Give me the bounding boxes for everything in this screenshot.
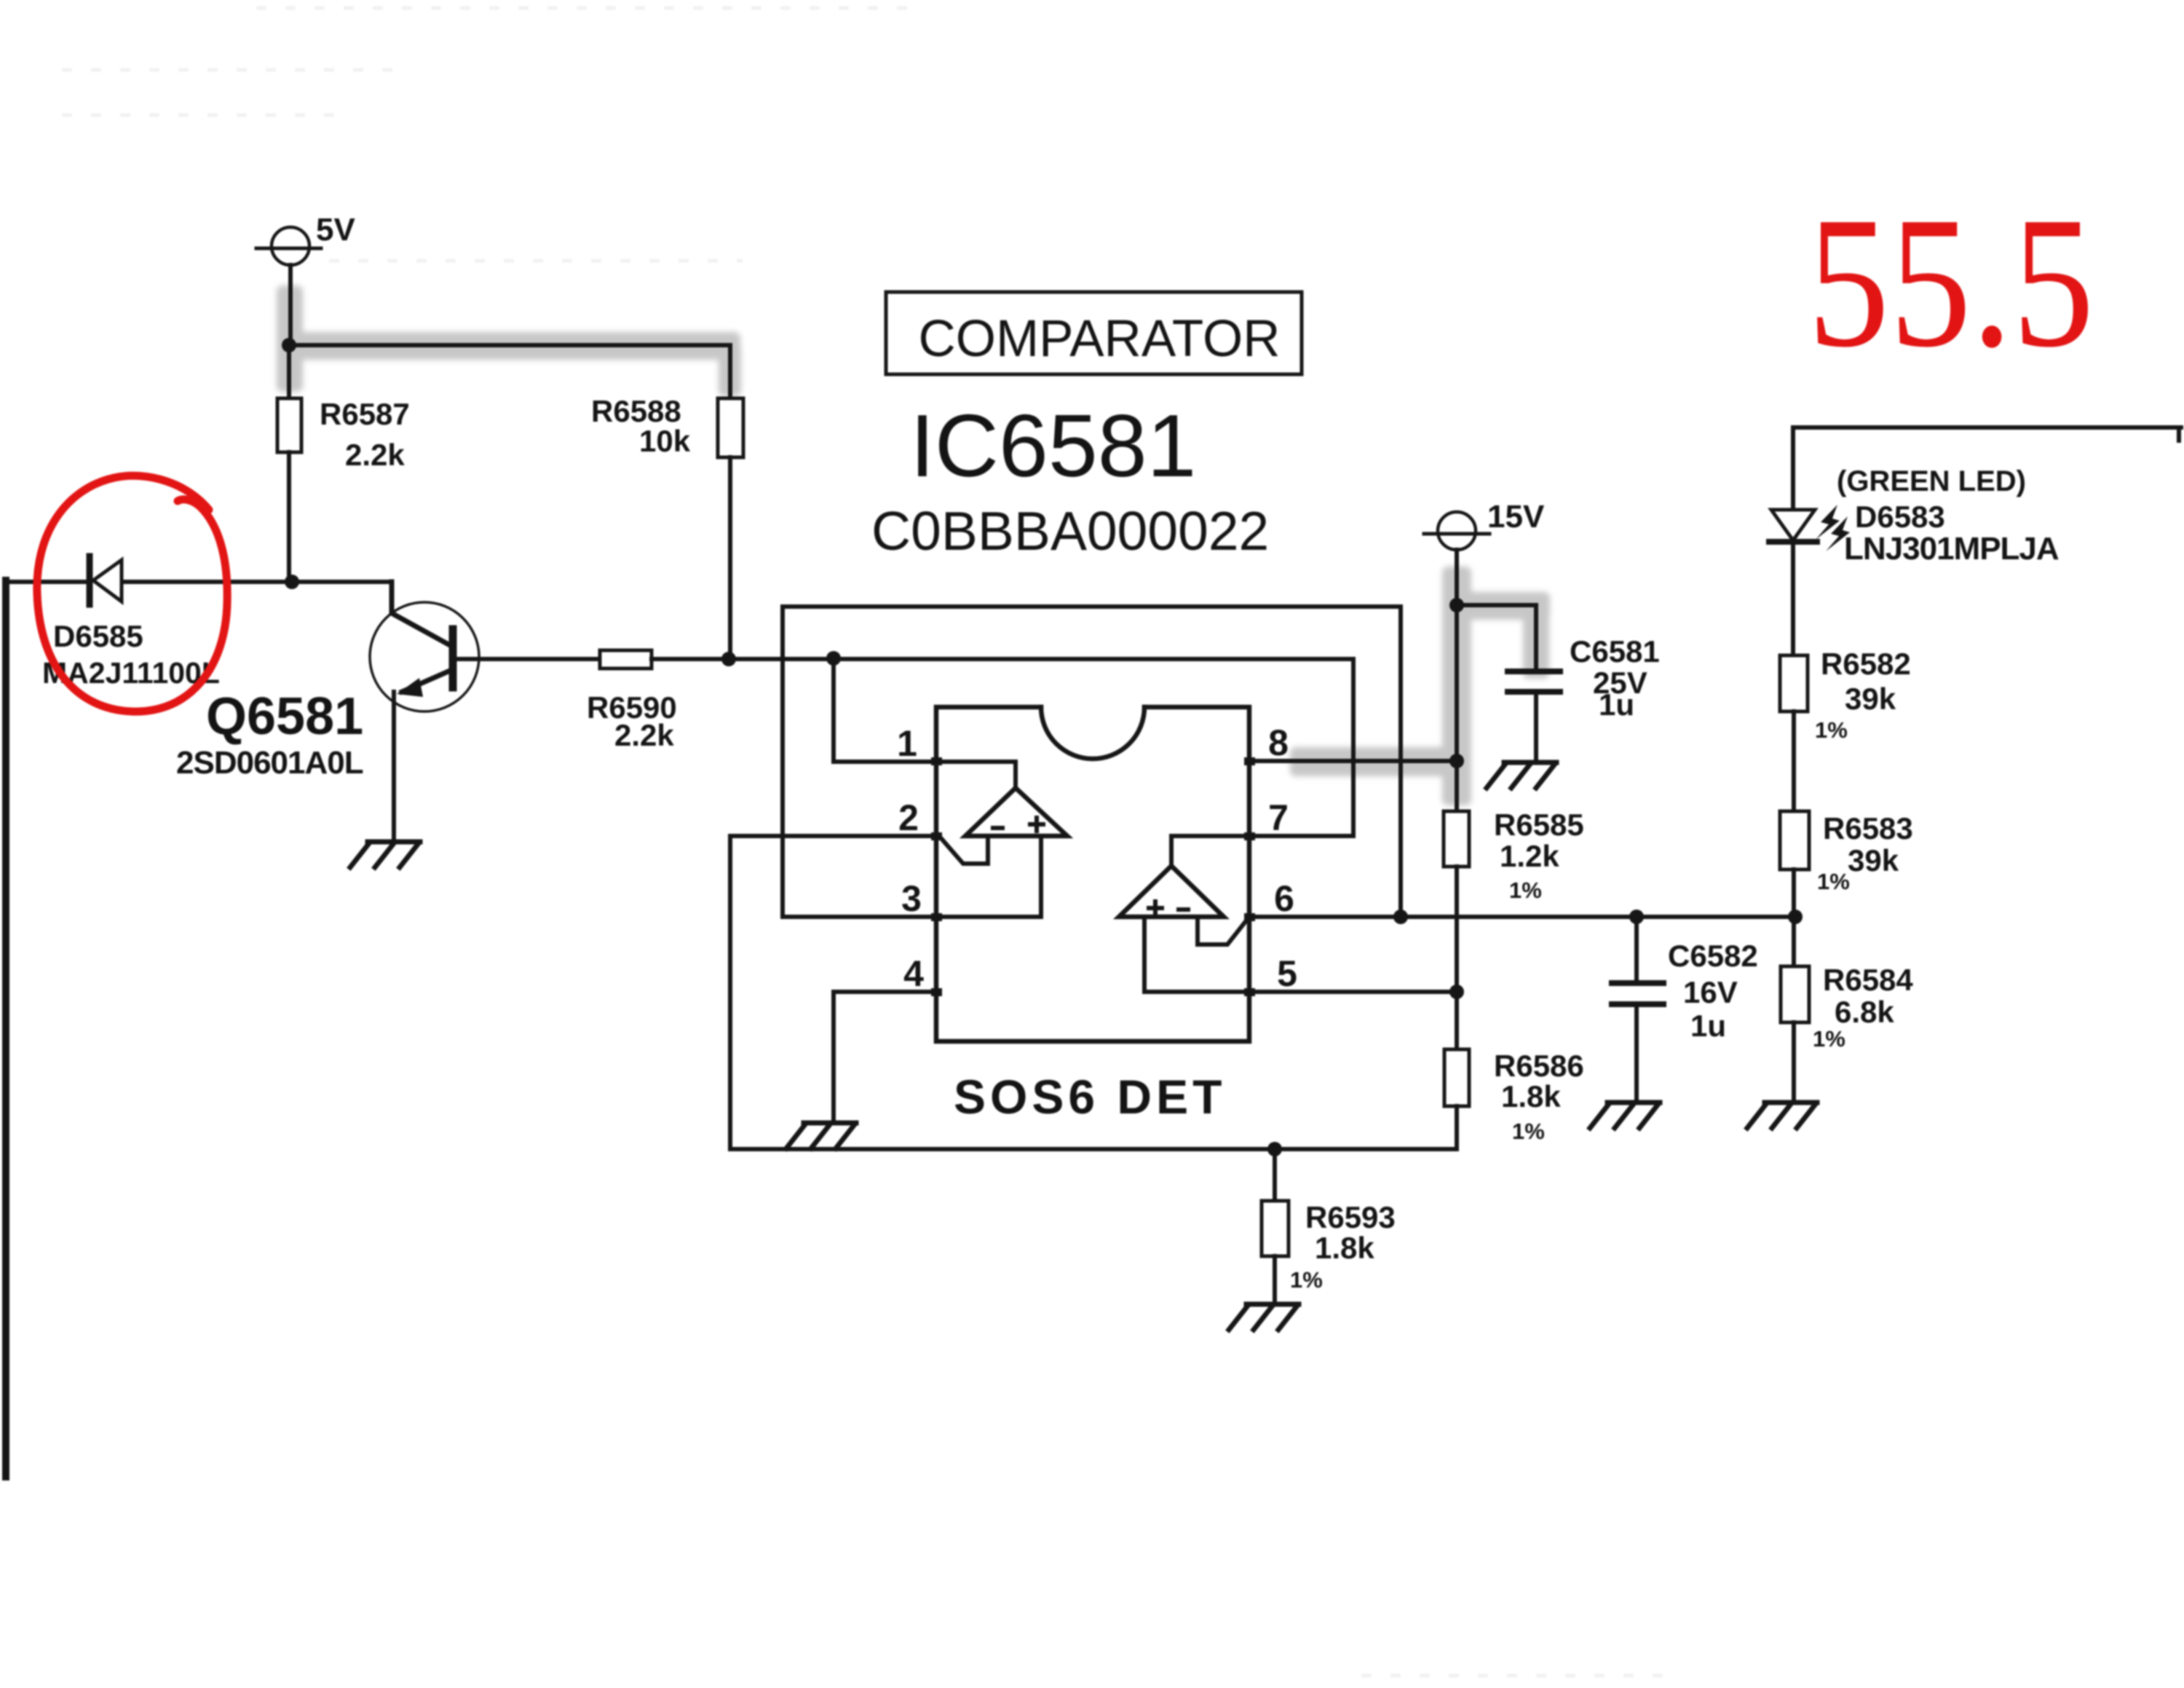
svg-text:5V: 5V [316, 212, 355, 248]
capacitor C6582 [1612, 917, 1663, 1102]
capacitor C6581 [1457, 605, 1560, 762]
wire: pin 5 net [1144, 917, 1457, 992]
svg-text:2.2k: 2.2k [345, 438, 405, 472]
svg-text:5: 5 [1277, 953, 1297, 994]
resistor R6587 [277, 345, 301, 582]
power symbol 5V [256, 227, 321, 347]
svg-text:D6583: D6583 [1855, 500, 1945, 534]
svg-text:R6584: R6584 [1823, 963, 1913, 997]
svg-text:1%: 1% [1290, 1267, 1323, 1293]
junction diode / R6587 / collector node [285, 575, 299, 589]
wire: pin 4 net [834, 992, 936, 1122]
wire: 5V rail to R6588 [289, 345, 730, 398]
IC6581 chip body [936, 707, 1249, 1041]
svg-text:R6583: R6583 [1823, 811, 1913, 845]
svg-text:1%: 1% [1815, 717, 1848, 743]
wire: pin 2 net [730, 836, 988, 864]
svg-text:C6582: C6582 [1668, 939, 1758, 973]
resistor R6584 [1781, 966, 1809, 1102]
svg-text:8: 8 [1268, 722, 1289, 763]
diode D6585 [90, 556, 122, 604]
junction C6582 top on pin6 net [1629, 910, 1644, 924]
svg-text:D6585: D6585 [53, 619, 143, 653]
svg-text:1%: 1% [1813, 1026, 1845, 1052]
wire: left edge vertical [2, 580, 9, 1477]
ground (C6581) [1487, 762, 1556, 788]
svg-text:R6593: R6593 [1305, 1200, 1396, 1234]
ground (C6582) [1590, 1103, 1660, 1128]
svg-text:R6586: R6586 [1494, 1049, 1584, 1083]
junction pin5 / R6585-R6586 column [1449, 985, 1464, 999]
wire: pin 3 net [783, 836, 1041, 917]
svg-text:3: 3 [901, 878, 922, 919]
resistor R6585 [1444, 811, 1469, 992]
svg-text:R6582: R6582 [1821, 647, 1911, 681]
ground (pin 4) [786, 1123, 856, 1148]
op-amp U1 (left comparator) [965, 788, 1067, 836]
svg-text:2SD0601A0L: 2SD0601A0L [176, 745, 363, 781]
svg-text:1%: 1% [1817, 869, 1850, 894]
IC outer routing box [783, 607, 1401, 917]
wire: pin 8 net [1249, 759, 1457, 763]
faint scanner noise [62, 8, 1667, 1676]
svg-text:1%: 1% [1509, 877, 1542, 903]
red 55.5 annotation [1808, 178, 2094, 387]
junction R6583/R6584 on pin6 net [1788, 910, 1803, 924]
svg-text:LNJ301MPLJA: LNJ301MPLJA [1844, 531, 2059, 567]
svg-text:6.8k: 6.8k [1835, 995, 1894, 1029]
ground (emitter Q6581) [350, 842, 420, 867]
svg-text:SOS6 DET: SOS6 DET [954, 1070, 1226, 1124]
ground (R6584) [1747, 1103, 1817, 1128]
resistor R6593 [1262, 1149, 1289, 1304]
svg-text:(GREEN LED): (GREEN LED) [1837, 465, 2026, 497]
svg-text:7: 7 [1268, 797, 1289, 838]
svg-text:1.2k: 1.2k [1500, 839, 1559, 873]
op-amp U2 (right comparator) [1119, 866, 1224, 917]
MAIN SCHEMATIC [4, 227, 2181, 1477]
wire: pin 6 net [1198, 917, 1795, 944]
svg-text:R6585: R6585 [1494, 808, 1584, 842]
wire: base of Q6581 to R6590 [456, 657, 600, 661]
svg-text:Q6581: Q6581 [206, 687, 363, 746]
svg-text:C6581: C6581 [1570, 634, 1660, 669]
svg-text:R6587: R6587 [320, 397, 410, 431]
svg-text:1.8k: 1.8k [1315, 1231, 1374, 1265]
resistor R6583 [1780, 811, 1809, 966]
svg-text:2.2k: 2.2k [614, 718, 674, 752]
svg-text:4: 4 [903, 953, 924, 994]
junction outer box right edge / pin6 net [1393, 910, 1408, 924]
svg-text:15V: 15V [1487, 499, 1545, 535]
svg-text:16V: 16V [1683, 975, 1738, 1009]
junction pin1 branch on base wire [826, 651, 841, 666]
ground (R6593) [1229, 1304, 1299, 1330]
wire: R6590 to pin7 riser [652, 659, 1353, 836]
pin stubs on chip body [931, 757, 1255, 996]
svg-text:1u: 1u [1690, 1009, 1726, 1043]
svg-text:R6588: R6588 [591, 394, 681, 428]
wire: top right rail [1793, 427, 2181, 510]
junction 5V rail / R6587 [282, 338, 296, 352]
svg-text:IC6581: IC6581 [910, 396, 1196, 495]
svg-text:39k: 39k [1848, 843, 1899, 877]
svg-text:55.5: 55.5 [1808, 178, 2094, 387]
resistor R6588 [718, 398, 743, 659]
wire: pin2 drop to bottom rail [730, 836, 1457, 1149]
wire: diode net horizontal [4, 580, 86, 584]
resistor R6586 [1444, 992, 1469, 1149]
LED D6583 [1769, 505, 1850, 655]
junction R6588 / base wire [721, 652, 736, 666]
resistor R6582 [1780, 655, 1808, 811]
svg-text:10k: 10k [639, 424, 691, 458]
svg-text:1%: 1% [1512, 1119, 1545, 1144]
SHADOWS [277, 285, 1550, 805]
junction pin8 / 15V column [1449, 754, 1464, 768]
svg-text:C0BBBA000022: C0BBBA000022 [871, 500, 1269, 561]
pin numbers [897, 722, 1297, 994]
COMPARATOR title box [886, 292, 1302, 374]
svg-text:6: 6 [1274, 878, 1294, 919]
wire: op2 output to pin 7 [1171, 836, 1249, 866]
junction R6593 on bottom rail [1267, 1142, 1282, 1156]
resistor R6590 [600, 650, 652, 669]
power symbol 15V [1424, 512, 1489, 607]
svg-text:1: 1 [897, 723, 917, 764]
svg-text:COMPARATOR: COMPARATOR [918, 310, 1280, 368]
junction 15V rail / C6581 branch [1449, 598, 1464, 612]
svg-text:39k: 39k [1845, 682, 1896, 716]
wire: 15V rail down [1455, 605, 1459, 811]
red annotation circle around D6585 [37, 476, 227, 711]
svg-text:2: 2 [898, 797, 919, 838]
wire: pin 1 net [834, 658, 1016, 790]
svg-text:1.8k: 1.8k [1501, 1079, 1561, 1113]
svg-text:1u: 1u [1599, 687, 1634, 722]
transistor Q6581 [370, 582, 479, 841]
